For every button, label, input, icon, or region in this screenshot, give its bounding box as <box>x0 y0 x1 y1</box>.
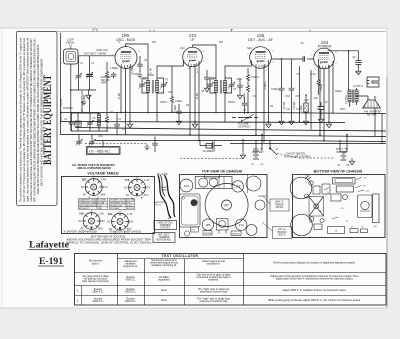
left frame verticals <box>61 33 71 135</box>
svg-text:Refer to parts layout diagram: Refer to parts layout diagram for locati… <box>274 261 356 265</box>
wire: V1 plate to IF1 <box>126 44 149 78</box>
svg-text:.02: .02 <box>352 56 356 59</box>
wire: V2 pins down <box>190 61 199 140</box>
svg-text:MMF: MMF <box>101 83 107 85</box>
svg-text:47M: 47M <box>311 73 316 76</box>
svg-text:"A" BATTERY UNDER CHASSIS: "A" BATTERY UNDER CHASSIS <box>63 231 97 234</box>
svg-text:1S5: 1S5 <box>79 212 84 216</box>
tube V4 1S4 <box>314 48 335 69</box>
svg-text:1600 K.C.: 1600 K.C. <box>92 289 104 293</box>
svg-text:455 KC: 455 KC <box>278 235 286 237</box>
svg-text:.05 MF: .05 MF <box>119 92 121 100</box>
svg-text:45V: 45V <box>101 193 106 197</box>
svg-text:.0001: .0001 <box>133 73 140 76</box>
svg-text:.005: .005 <box>295 95 300 98</box>
IF transformer T-1 <box>146 78 158 122</box>
note under voltage table <box>67 235 153 244</box>
svg-text:+B: +B <box>346 163 350 167</box>
wire: V3 pins down <box>256 60 269 140</box>
bottom trimmer caps <box>76 135 148 147</box>
row number divider <box>81 286 83 306</box>
svg-text:ARE ILLUSTRATED ABOVE: ARE ILLUSTRATED ABOVE <box>77 166 111 170</box>
svg-text:CABLE: CABLE <box>161 189 169 192</box>
wire: V2 plate to IF2 <box>193 45 217 78</box>
osc trimmer C5 <box>87 120 94 126</box>
svg-text:1 MEG: 1 MEG <box>244 93 246 100</box>
svg-text:OSC GRID VOLTS: OSC GRID VOLTS <box>79 205 97 207</box>
svg-text:2 MEG: 2 MEG <box>251 76 259 79</box>
top view: loop hub <box>191 199 198 206</box>
svg-text:P.M.: P.M. <box>127 203 131 205</box>
wire: A battery drops <box>243 135 262 153</box>
svg-text:SPEAKER FIELD: SPEAKER FIELD <box>110 202 127 205</box>
svg-text:2M: 2M <box>168 91 171 94</box>
svg-text:antenna of receiver loop: antenna of receiver loop <box>200 289 228 293</box>
table column headers <box>89 258 356 268</box>
svg-text:0V: 0V <box>124 186 127 190</box>
svg-text:10MEG: 10MEG <box>271 88 279 91</box>
socket diagram 1S4 <box>112 213 129 230</box>
svg-text:PLUG: PLUG <box>155 205 161 207</box>
svg-text:equivalent: equivalent <box>158 278 170 282</box>
svg-text:1400 K.C.: 1400 K.C. <box>92 299 104 303</box>
svg-text:TEST OSCILLATOR: TEST OSCILLATOR <box>162 254 199 258</box>
svg-text:1M: 1M <box>253 95 256 98</box>
switch dashed link <box>277 153 335 158</box>
misc tiny value labels 2 <box>64 41 360 131</box>
svg-text:While rocking gang condenser a: While rocking gang condenser adjust 1400… <box>268 298 361 302</box>
svg-text:Adjust 1600 K. C. oscillator t: Adjust 1600 K. C. oscillator trimmer for… <box>283 288 347 292</box>
svg-text:TOP ADJ.: TOP ADJ. <box>160 227 170 230</box>
svg-text:-6 V: -6 V <box>98 205 102 207</box>
svg-text:None: None <box>161 288 168 292</box>
junction dots <box>70 44 349 142</box>
svg-text:oscillator consisting of:: oscillator consisting of: <box>151 263 177 267</box>
svg-text:GRID CAP: GRID CAP <box>96 49 108 52</box>
svg-text:MFD: MFD <box>340 108 345 111</box>
svg-text:0V: 0V <box>79 219 82 223</box>
rotated component labels <box>61 65 348 121</box>
svg-text:1 MEG: 1 MEG <box>175 100 183 103</box>
loop antenna L1 <box>64 49 79 64</box>
osc grid resistor R2 <box>105 115 108 124</box>
wire: IF1 to V2 grid <box>157 60 184 78</box>
socket diagram 1R5 <box>85 179 102 196</box>
svg-text:2ND I.F.: 2ND I.F. <box>275 202 284 204</box>
svg-text:POWER OUTPUT: POWER OUTPUT <box>110 200 128 202</box>
bottom view: tiny ref labels <box>305 176 377 233</box>
bottom view: tuning shaft parts <box>305 176 331 223</box>
misc vertical drops left <box>84 95 90 112</box>
bottom view of chassis box <box>293 175 386 238</box>
svg-text:TUNING: TUNING <box>204 233 212 235</box>
svg-text:BATTERY EQUIPMENT: BATTERY EQUIPMENT <box>42 75 54 165</box>
svg-text:C12: C12 <box>296 108 301 111</box>
svg-text:SP: SP <box>224 204 229 208</box>
svg-text:1 MEG: 1 MEG <box>301 105 303 112</box>
svg-text:A BATTERY DRAIN: A BATTERY DRAIN <box>79 199 98 202</box>
svg-text:60V: 60V <box>127 227 132 231</box>
svg-text:C13: C13 <box>318 84 323 87</box>
top view: speaker circle <box>205 184 248 227</box>
svg-text:AT 600 KC: AT 600 KC <box>79 207 89 210</box>
A battery ground <box>240 152 245 159</box>
svg-text:1S4: 1S4 <box>108 212 113 216</box>
osc coil L2 <box>97 114 100 127</box>
svg-text:50V: 50V <box>98 227 103 231</box>
svg-text:BOTTOM VIEW OF CHASSIS: BOTTOM VIEW OF CHASSIS <box>314 170 363 174</box>
wire: V4 pins down <box>320 61 333 140</box>
rail 3 <box>75 128 386 132</box>
svg-text:FILAMENT: FILAMENT <box>203 150 216 153</box>
svg-text:1R5: 1R5 <box>82 178 87 182</box>
svg-text:-B: -B <box>337 163 340 167</box>
right section vertical drops <box>300 66 383 144</box>
bottom view: IF can under <box>331 194 347 201</box>
tube labels <box>116 33 332 49</box>
voltage mini table left <box>79 199 108 210</box>
svg-text:ANT. SECT. TUNING: ANT. SECT. TUNING <box>84 52 107 55</box>
svg-text:3MEG: 3MEG <box>335 90 342 93</box>
svg-text:67V: 67V <box>144 193 149 197</box>
electrolytic C14 <box>318 102 325 116</box>
tube V1 1R5 <box>115 47 137 69</box>
bottom view: speaker circles <box>290 177 312 236</box>
svg-text:67V: 67V <box>146 186 151 190</box>
loop label <box>66 39 75 48</box>
svg-text:"B" BATTERY OVER CHASSIS: "B" BATTERY OVER CHASSIS <box>109 231 141 234</box>
bottom view: battery compartment <box>358 194 380 223</box>
svg-text:1T4: 1T4 <box>125 178 130 182</box>
osc section: padder C4 <box>69 120 75 126</box>
sidebar box: BATTERY EQUIPMENT <box>17 32 58 206</box>
IF1 trimmers <box>139 82 146 88</box>
IF455 label box <box>87 147 121 155</box>
svg-text:TRANSF.: TRANSF. <box>275 203 285 206</box>
bottom view: callout arrows <box>324 177 364 219</box>
callout lines <box>262 196 273 231</box>
svg-text:C11: C11 <box>286 108 291 111</box>
fold tick marks <box>93 29 310 32</box>
svg-text:adjust each of the first I.F.: adjust each of the first I.F. transforme… <box>276 277 354 281</box>
svg-text:+A: +A <box>260 162 264 166</box>
gnd near IF box <box>144 144 149 150</box>
ground under tuning <box>86 92 91 99</box>
bottom view: output transformer rect <box>333 178 356 193</box>
svg-text:3 MEG: 3 MEG <box>175 105 177 112</box>
B battery cluster <box>340 135 347 153</box>
diode load resistors R5 R6 <box>246 73 249 82</box>
svg-text:.05: .05 <box>144 59 148 62</box>
socket diagram 1S5 <box>83 213 100 230</box>
schematic top border line <box>16 31 386 33</box>
top view: tube 1S4 <box>180 179 193 192</box>
tube V2 1T4 <box>183 47 203 67</box>
svg-text:1S4: 1S4 <box>184 184 189 188</box>
svg-text:.005: .005 <box>313 97 318 100</box>
svg-text:PADDER: PADDER <box>101 76 111 79</box>
arrow grounds on ground rail <box>192 121 197 128</box>
cap on B+ left <box>114 122 120 128</box>
AVC rail <box>60 122 345 123</box>
voltage mini table right <box>110 199 135 210</box>
voltage table box <box>62 177 155 234</box>
svg-text:10 MA: 10 MA <box>98 202 105 205</box>
top view: gang capacitor <box>195 175 232 189</box>
svg-text:ON VOLUME CONTROL: ON VOLUME CONTROL <box>284 155 311 158</box>
svg-text:OUTPUT: OUTPUT <box>353 85 363 88</box>
svg-text:1ST I.F.: 1ST I.F. <box>278 229 286 231</box>
svg-text:SEC: SEC <box>247 47 252 50</box>
top view: bottom edge small parts <box>184 227 241 236</box>
battery A symbol <box>253 151 259 159</box>
svg-text:0V: 0V <box>81 185 84 189</box>
svg-text:0V: 0V <box>109 227 112 231</box>
svg-text:16V: 16V <box>100 219 105 223</box>
svg-text:0V: 0V <box>107 220 110 224</box>
svg-text:MIN: MIN <box>98 208 102 210</box>
bottom view: gang drive with cross <box>309 197 324 217</box>
svg-text:1400 K.C.: 1400 K.C. <box>125 299 137 303</box>
wire: osc tank <box>71 110 99 131</box>
table row 2 <box>77 297 361 304</box>
svg-text:455KC: 455KC <box>160 101 168 104</box>
svg-text:0V: 0V <box>126 193 129 197</box>
svg-text:PRI: PRI <box>152 41 156 44</box>
wire: loop to V1 grid <box>71 56 115 110</box>
svg-text:67V: 67V <box>103 185 108 189</box>
on-off switch <box>270 140 277 155</box>
wire: V4 plate <box>328 51 359 90</box>
cap C2 <box>111 72 117 78</box>
svg-text:C15: C15 <box>355 71 360 74</box>
svg-text:dial to:: dial to: <box>92 261 100 265</box>
svg-text:1T4: 1T4 <box>239 223 244 227</box>
svg-text:OSC - MOD: OSC - MOD <box>116 38 136 42</box>
misc tiny value labels <box>63 73 363 138</box>
svg-text:A BATT.: A BATT. <box>161 186 169 189</box>
V2 bypass cap <box>204 75 210 81</box>
cap right of IF box <box>152 141 158 147</box>
svg-text:1 MEG: 1 MEG <box>110 66 118 70</box>
IF transf callout box A <box>270 199 289 211</box>
antenna tuning gang C1A <box>75 73 82 79</box>
B+ rail <box>60 113 386 114</box>
screen dropping resistors mid <box>170 95 173 104</box>
svg-text:I.F.: I.F. <box>190 38 195 42</box>
trimmer callout box 1 <box>154 221 177 230</box>
tube pin numbers <box>112 44 337 74</box>
grid resistor column for V4 <box>317 78 320 87</box>
svg-text:270 MW: 270 MW <box>127 200 135 202</box>
label osc sect <box>80 97 84 112</box>
svg-text:PRI: PRI <box>219 41 223 44</box>
svg-text:TOP VIEW OF CHASSIS: TOP VIEW OF CHASSIS <box>202 170 243 174</box>
top view: tube 1R5 <box>202 219 213 230</box>
svg-text:1600 K.C.: 1600 K.C. <box>125 289 137 293</box>
svg-text:TRANSF.: TRANSF. <box>277 231 287 234</box>
grid resistor for V4 <box>304 103 308 112</box>
top view: IF cans right <box>246 174 267 236</box>
svg-text:455 K.C.: 455 K.C. <box>126 278 136 282</box>
svg-text:10M: 10M <box>304 99 309 102</box>
svg-text:455 KC: 455 KC <box>276 207 284 209</box>
right page border <box>386 77 388 308</box>
svg-text:CONTROL: CONTROL <box>238 126 251 129</box>
svg-text:1S5: 1S5 <box>235 185 240 189</box>
svg-text:1R5: 1R5 <box>205 223 211 227</box>
svg-text:455 KC: 455 KC <box>127 208 134 210</box>
svg-text:3.2 Ω: 3.2 Ω <box>127 204 132 207</box>
wire: V1 pins down <box>121 66 130 135</box>
speaker cone <box>357 96 381 108</box>
svg-text:0V: 0V <box>83 193 86 197</box>
svg-text:oscillator to:: oscillator to: <box>207 262 221 266</box>
table row 0 <box>82 273 359 284</box>
screen caps cluster near V1 <box>137 62 143 68</box>
dashed control link <box>180 158 243 160</box>
top view: loop antenna back panel <box>180 194 201 227</box>
bottom view: bottom rects <box>314 224 368 234</box>
svg-text:.002: .002 <box>285 95 290 98</box>
svg-text:frequency to:: frequency to: <box>123 264 138 268</box>
svg-text:64V: 64V <box>129 220 134 224</box>
svg-text:1.4V: 1.4V <box>144 178 150 182</box>
svg-text:-A: -A <box>251 162 254 166</box>
svg-text:soldered.: soldered. <box>208 278 219 282</box>
speaker magnet <box>367 77 379 87</box>
svg-text:455KC: 455KC <box>228 101 236 104</box>
svg-text:VOICE COIL: VOICE COIL <box>110 205 123 207</box>
svg-text:TO LOOP: TO LOOP <box>157 173 168 176</box>
top view: tube 1T4 <box>236 219 247 230</box>
wire: V3 plate to V4 grid with coupling cap <box>272 58 314 60</box>
svg-text:250 MA: 250 MA <box>98 199 106 202</box>
svg-text:1.4V: 1.4V <box>98 212 104 216</box>
svg-text:BEST VOLTAGE AND LIFE WILL BE: BEST VOLTAGE AND LIFE WILL BE OBTAINED W… <box>40 58 44 186</box>
trimmer callout box 2 <box>153 233 175 243</box>
top view: osc coil between bottom tubes <box>217 219 229 234</box>
rotated tuning label <box>81 90 84 113</box>
svg-text:SWITCH: SWITCH <box>232 233 241 235</box>
svg-text:I.F. PEAK: I.F. PEAK <box>110 207 120 210</box>
padder label block <box>101 76 111 85</box>
cap mid <box>176 109 182 115</box>
top view: tube 1S5 <box>232 181 243 192</box>
svg-text:antenna of machine loop: antenna of machine loop <box>200 299 228 303</box>
svg-text:PADDER: PADDER <box>63 107 73 110</box>
IF transformer T-2 <box>214 78 226 122</box>
svg-text:BATTERY: BATTERY <box>155 201 165 204</box>
TO LOOP wires <box>158 175 175 218</box>
svg-text:POWER: POWER <box>318 45 332 49</box>
svg-text:I.F.- 455 KC: I.F.- 455 KC <box>89 148 110 153</box>
svg-text:392-580: 392-580 <box>101 80 110 82</box>
svg-text:SEC: SEC <box>180 47 185 50</box>
filament rail <box>95 141 386 142</box>
svg-text:OSC: OSC <box>98 135 103 138</box>
battery position labels in box <box>63 231 141 234</box>
filter electrolytic right <box>355 51 362 68</box>
output transformer T-3 <box>348 88 358 107</box>
tube V3 1S5 <box>250 47 272 69</box>
table row 1 <box>77 287 347 294</box>
svg-text:ANT. SECT.: ANT. SECT. <box>158 234 170 237</box>
svg-text:Lafayette: Lafayette <box>29 240 70 251</box>
svg-text:.0001: .0001 <box>236 78 243 81</box>
svg-text:B BATTERY DRAIN: B BATTERY DRAIN <box>79 202 98 205</box>
svg-text:0V: 0V <box>80 227 83 231</box>
grid resistor R1 <box>105 70 108 79</box>
IF2 trimmers <box>207 82 214 88</box>
svg-text:No. SPK: No. SPK <box>367 114 377 117</box>
filament dropping resistor and cap bottom center <box>200 140 222 150</box>
trimmer C1B <box>86 72 93 78</box>
ground rail <box>60 135 386 137</box>
svg-text:None: None <box>161 298 168 302</box>
svg-text:E-191: E-191 <box>39 256 63 266</box>
audio coupling caps right of V3 <box>279 86 285 92</box>
coupling electrolytic <box>242 101 248 107</box>
sidebar paragraph (rotated) <box>19 38 44 202</box>
volume control R7 <box>232 114 258 122</box>
AVC cap <box>237 83 243 89</box>
svg-text:MINALS TO CHASSIS, LINE AT CON: MINALS TO CHASSIS, LINE AT CONTROL IS NO… <box>67 241 153 244</box>
IF transf callout box B <box>273 227 292 239</box>
svg-text:BOTTOM ADJ.: BOTTOM ADJ. <box>156 239 172 242</box>
svg-text:lator signal or harmonic: lator signal or harmonic <box>82 279 109 283</box>
svg-text:1.4V: 1.4V <box>127 212 133 216</box>
svg-text:10 MEG: 10 MEG <box>265 81 267 90</box>
extra rail <box>230 143 386 145</box>
svg-text:DET - AVC - AF: DET - AVC - AF <box>248 38 274 42</box>
svg-text:1.4V: 1.4V <box>101 178 107 182</box>
svg-text:OUTPUT: OUTPUT <box>346 94 348 104</box>
wire: IF2 to diode of V3 <box>225 61 252 79</box>
socket diagram 1T4 <box>129 179 146 196</box>
svg-text:.05 MF: .05 MF <box>197 92 199 100</box>
wire: tuning caps top <box>71 56 96 92</box>
top view of chassis box <box>180 175 268 238</box>
svg-text:250M: 250M <box>148 74 154 77</box>
